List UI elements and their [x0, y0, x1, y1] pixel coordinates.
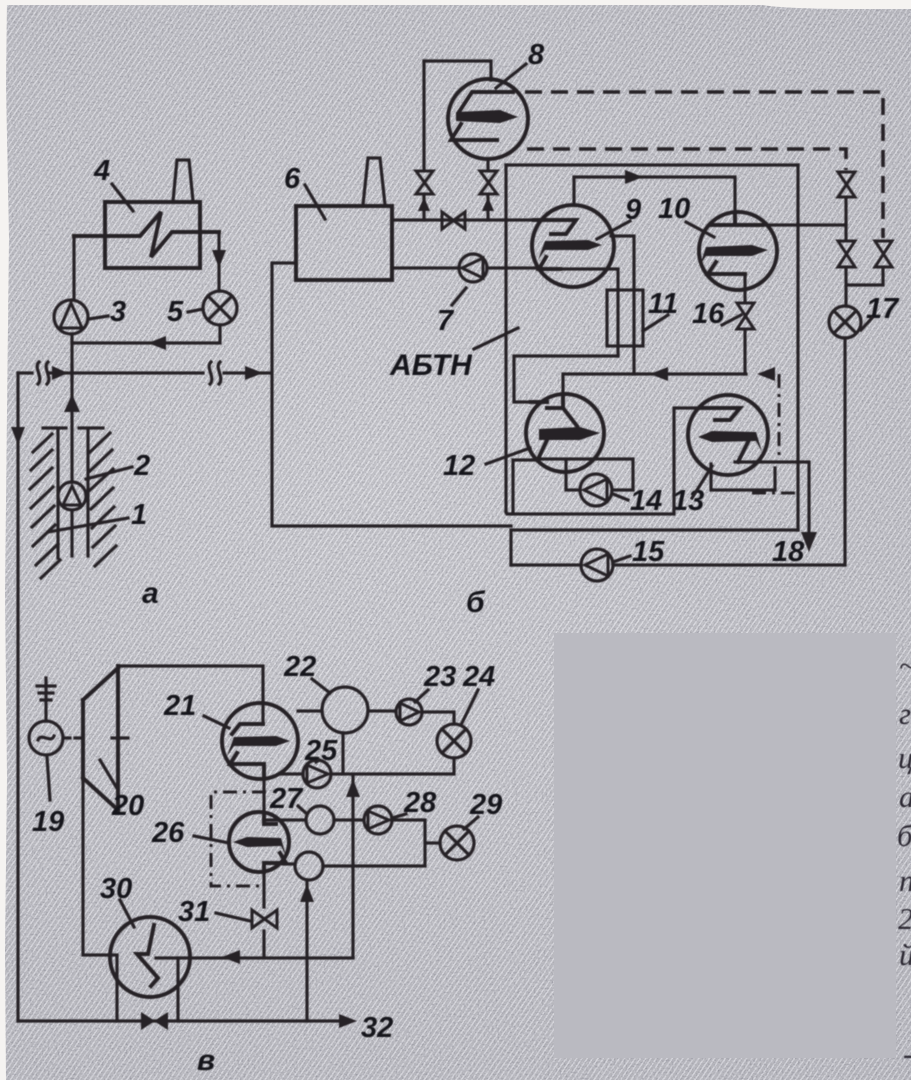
chimney of boiler 4	[173, 160, 193, 201]
hatching right of well	[90, 433, 116, 566]
tick at well tap	[70, 365, 73, 381]
label 25	[304, 735, 338, 767]
label 7	[437, 288, 466, 337]
SS mark left	[37, 362, 49, 384]
arrow right on 9-10 line	[625, 170, 643, 184]
chilled water line lower	[511, 530, 798, 565]
generator 19	[29, 721, 63, 755]
expansion tank 22	[322, 687, 368, 733]
heating coil in boiler 4	[74, 212, 219, 257]
svg-text:25: 25	[304, 735, 338, 767]
label 16	[692, 298, 741, 330]
SS mark right	[209, 362, 221, 384]
arrow down to 5	[212, 250, 226, 268]
dash-dot stub under 13	[752, 492, 800, 495]
label 24	[461, 661, 495, 725]
svg-text:2: 2	[898, 901, 911, 936]
wire 22 to pump 23	[368, 709, 396, 712]
wire 11 to absorber 12 top left	[514, 356, 618, 402]
svg-text:п: п	[899, 863, 911, 898]
svg-text:1: 1	[131, 499, 147, 531]
dashed line upper from 8	[525, 92, 883, 238]
svg-text:ц: ц	[898, 740, 911, 775]
svg-text:21: 21	[163, 690, 196, 722]
ABTN block outline top	[506, 163, 798, 166]
valve on line 6-9	[442, 212, 465, 229]
absorber 12	[526, 394, 604, 472]
consumer 24	[437, 724, 471, 758]
label 29	[464, 789, 502, 829]
ABTN block outline left	[504, 165, 507, 512]
wire unit6 to pump 7 to generator 9	[392, 266, 540, 269]
valve pair right	[875, 241, 892, 267]
svg-text:б: б	[897, 818, 911, 853]
svg-text:-: -	[903, 1036, 911, 1071]
absorber feed line	[563, 374, 746, 396]
left outer downcomer	[16, 373, 19, 1021]
makeup riser	[351, 777, 354, 957]
throttle 5	[203, 291, 237, 325]
label 30	[100, 873, 134, 927]
wire 21 to tank 22	[298, 709, 322, 712]
svg-text:8: 8	[528, 39, 545, 71]
label 1	[48, 499, 147, 532]
turbine 20	[83, 666, 118, 810]
svg-text:АБТН: АБТН	[389, 349, 473, 382]
generator 9	[532, 205, 614, 287]
svg-text:19: 19	[32, 806, 64, 838]
arrow right at well tap	[52, 366, 68, 380]
pump 23	[396, 699, 422, 725]
label 5	[167, 296, 203, 328]
svg-text:20: 20	[111, 790, 144, 822]
wire left riser of scheme a	[72, 236, 74, 482]
svg-text:7: 7	[437, 305, 455, 337]
throttle 17	[829, 306, 861, 338]
svg-text:30: 30	[100, 873, 132, 905]
evaporator 13	[688, 395, 768, 475]
vent circle 27 lower	[295, 852, 323, 880]
wire 13 coil exit to arrow 18	[735, 462, 809, 540]
coil in 8	[459, 92, 513, 112]
wire 23 to consumer 24	[422, 712, 454, 724]
arrow up on riser	[64, 394, 80, 412]
valve on dashed right upper chain	[838, 172, 855, 197]
well pump 1	[58, 482, 86, 556]
wire 12 to recirculation pump 14	[538, 459, 633, 490]
valve on left riser of 8	[416, 171, 433, 194]
label 19	[32, 757, 64, 838]
wire into 13 coil from chilled loop	[506, 408, 700, 514]
label 6	[284, 163, 325, 219]
dashed line lower from 8	[527, 149, 846, 170]
wire 28 to consumer 29	[323, 820, 440, 866]
valve on bottom line	[141, 1012, 168, 1030]
wire 26 down through valve 31	[262, 872, 265, 957]
label 22	[283, 651, 330, 693]
label 23	[415, 661, 456, 702]
svg-text:24: 24	[462, 661, 495, 693]
label 14	[613, 485, 662, 517]
svg-text:29: 29	[469, 789, 502, 821]
well casing right	[79, 428, 103, 556]
svg-text:а: а	[899, 779, 911, 814]
label 31	[178, 896, 250, 928]
coil in 12	[531, 395, 577, 426]
svg-text:в: в	[197, 1044, 215, 1077]
svg-text:31: 31	[178, 896, 210, 928]
wire 22 drop leg	[341, 733, 344, 774]
coil in 13	[700, 408, 740, 420]
ABTN block outline right	[796, 165, 799, 530]
wire 9 right to exchanger 11	[611, 236, 634, 374]
dash-dot arrow into absorber feed	[757, 367, 775, 381]
valve below 8	[480, 171, 497, 194]
wire top loop of 8	[424, 61, 491, 80]
boiler 30	[110, 917, 190, 997]
wire valves to throttle 17	[846, 267, 883, 306]
wire 27 to pump 28	[334, 818, 364, 821]
arrow up below valve of 8	[482, 197, 494, 211]
svg-text:16: 16	[692, 298, 725, 330]
svg-text:4: 4	[93, 155, 110, 187]
condenser 8	[448, 79, 528, 159]
svg-text:28: 28	[403, 787, 437, 819]
label 4	[93, 155, 133, 211]
arrow 18 head	[801, 532, 817, 552]
burner unit 6	[296, 206, 392, 280]
svg-text:5: 5	[167, 296, 184, 328]
label 28	[392, 787, 437, 819]
wire 9 top to 10 top	[574, 177, 735, 213]
label 10	[658, 193, 714, 237]
coil in 26	[264, 813, 276, 824]
svg-text:3: 3	[110, 296, 126, 328]
arrow up on makeup riser	[346, 779, 360, 797]
turbine exhaust down to 30	[83, 778, 117, 955]
condenser 10	[699, 212, 777, 290]
label ABTN	[389, 328, 518, 382]
condensate line into boiler 30	[156, 956, 353, 959]
wire 21 down to heater 26	[262, 779, 265, 813]
peak heater 26	[229, 812, 289, 872]
pump 3	[54, 300, 88, 334]
well casing left	[43, 428, 66, 558]
svg-text:26: 26	[151, 817, 185, 849]
label 21	[163, 690, 229, 728]
wire riser to condenser 8 left	[422, 61, 425, 220]
label 20	[100, 760, 144, 822]
label 3	[89, 296, 126, 328]
svg-text:12: 12	[443, 450, 475, 482]
dash-dot return from 13	[778, 374, 781, 462]
heat source line with SS marks	[18, 371, 270, 374]
label 13	[672, 466, 712, 517]
wire 5 to pump 3 return	[72, 325, 220, 343]
svg-text:а: а	[142, 577, 159, 610]
vent circle 27 upper	[306, 806, 334, 834]
valve 16	[737, 303, 754, 329]
outer hot loop left	[272, 263, 511, 526]
solution heat exchanger 11	[607, 290, 643, 346]
wire 10 coil to valve chain	[756, 223, 846, 226]
return 24 to 21 with pump 25	[281, 758, 454, 774]
label 9	[597, 194, 641, 239]
shaft 19-20	[63, 736, 128, 739]
chimney of unit 6	[363, 158, 385, 205]
pump 15	[581, 549, 613, 581]
makeup line from bottom	[305, 881, 308, 1021]
pump 14	[580, 474, 612, 506]
hatching left of well	[30, 434, 60, 578]
svg-text:г: г	[899, 696, 911, 731]
svg-text:32: 32	[361, 1012, 393, 1044]
svg-text:27: 27	[269, 783, 304, 815]
coil in 10	[712, 213, 762, 225]
wire 17 down to return line	[843, 338, 846, 565]
coil in 30	[137, 925, 158, 986]
wire 8 bottom to line	[486, 159, 489, 220]
arrow right to 32	[339, 1014, 357, 1028]
svg-text:15: 15	[632, 536, 665, 568]
label 8	[496, 39, 545, 88]
dash-dot enclosure of 26	[211, 792, 266, 886]
boiler 30 bottom stubs	[117, 956, 178, 1021]
pump 7	[459, 254, 487, 282]
arrow up on makeup line	[300, 884, 314, 902]
svg-text:14: 14	[630, 485, 662, 517]
brush symbol above 19	[37, 678, 55, 721]
label 26	[151, 817, 229, 849]
wire unit6 to generator 9	[392, 218, 534, 221]
boiler 4	[105, 202, 200, 268]
wire 12 lower left stub	[513, 460, 538, 513]
arrow left on absorber feed	[650, 367, 668, 381]
wire 10 bottom through valve 16	[743, 274, 746, 374]
wire 9 bottom to exchanger 11	[560, 269, 618, 356]
steam line to heater 21	[120, 666, 263, 724]
return line with pump 15	[511, 563, 845, 566]
svg-text:13: 13	[672, 485, 704, 517]
svg-text:11: 11	[648, 288, 678, 320]
label 17	[861, 293, 900, 330]
svg-text:18: 18	[772, 536, 805, 568]
consumer 29	[440, 826, 474, 860]
coil in 9	[534, 220, 576, 234]
wire 26 to circles 27	[266, 820, 306, 864]
label 15	[613, 536, 665, 568]
bottom blowdown line	[18, 1019, 345, 1022]
wire boiler 4 to throttle 5	[217, 232, 220, 291]
arrow left on return line	[148, 336, 166, 350]
label 12	[443, 448, 530, 482]
svg-text:6: 6	[284, 163, 301, 195]
label 11	[643, 288, 678, 331]
wire valve to line 10-17	[844, 198, 847, 240]
svg-text:й: й	[899, 937, 911, 972]
svg-text:~: ~	[899, 648, 911, 683]
arrow right into ABTN loop	[245, 366, 263, 380]
pump 25	[303, 760, 331, 788]
network heater 21	[222, 703, 298, 779]
coil in 21	[232, 724, 263, 734]
svg-text:2: 2	[133, 450, 150, 482]
valve 31	[252, 910, 277, 928]
svg-text:б: б	[466, 586, 486, 619]
label 2	[86, 450, 150, 482]
staple under 13	[711, 464, 775, 490]
valve pair left	[838, 241, 855, 267]
label 27	[269, 783, 307, 815]
pump 28	[364, 806, 392, 834]
arrow down on downcomer	[11, 427, 25, 445]
arrow left into 30	[222, 950, 240, 964]
